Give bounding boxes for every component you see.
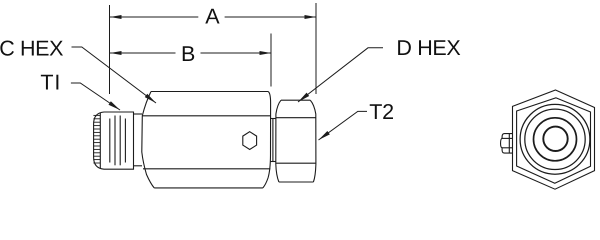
svg-text:B: B bbox=[181, 42, 195, 66]
svg-text:C HEX: C HEX bbox=[0, 36, 63, 60]
svg-text:D HEX: D HEX bbox=[396, 36, 460, 60]
svg-text:T2: T2 bbox=[369, 100, 393, 124]
svg-text:A: A bbox=[205, 4, 220, 28]
svg-text:TI: TI bbox=[40, 70, 61, 94]
